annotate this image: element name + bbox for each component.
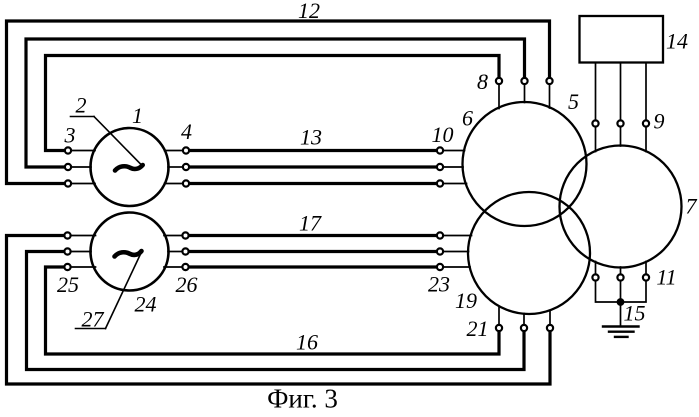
terminal 8 right <box>546 78 552 84</box>
wire bus 16 inner loop <box>46 267 500 354</box>
svg-text:21: 21 <box>467 316 489 341</box>
generator G24 circle <box>91 213 169 291</box>
terminal 25 bottom <box>64 264 70 270</box>
svg-text:17: 17 <box>299 211 322 236</box>
svg-text:7: 7 <box>686 194 698 219</box>
svg-text:27: 27 <box>82 307 105 332</box>
wire stubs terminals 8 into machine 5 <box>499 85 550 109</box>
terminal 8 middle <box>521 78 527 84</box>
terminal 4 middle <box>183 164 189 170</box>
svg-text:3: 3 <box>64 123 76 148</box>
wire bus 12 inner loop <box>46 56 500 151</box>
wire 17 phase B <box>190 250 437 253</box>
terminal 25 middle <box>64 248 70 254</box>
terminal 4 bottom <box>183 180 189 186</box>
svg-text:1: 1 <box>132 103 143 128</box>
wire ground stem <box>620 302 622 326</box>
terminal 21 left <box>496 325 502 331</box>
svg-text:26: 26 <box>176 272 198 297</box>
label 2 underline <box>71 116 95 118</box>
svg-text:4: 4 <box>181 119 192 144</box>
machine 5 circle <box>463 102 587 226</box>
label 27 leader line <box>106 253 142 329</box>
terminal 26 middle <box>182 248 188 254</box>
terminal 3 top <box>65 147 71 153</box>
terminal 23 bottom <box>437 264 443 270</box>
terminal 4 top <box>183 147 189 153</box>
wire stubs terminals 23 into machine 19 <box>444 236 472 268</box>
svg-text:15: 15 <box>624 301 646 326</box>
wire 13 phase C <box>190 182 436 185</box>
terminal 25 top <box>64 232 70 238</box>
terminal 21 right <box>547 325 553 331</box>
svg-text:19: 19 <box>455 288 477 313</box>
svg-text:23: 23 <box>428 272 450 297</box>
wire block 14 to terminals 9 <box>596 63 647 120</box>
wire bus 16 outer loop <box>7 236 551 385</box>
block 14 rectangle <box>580 16 664 63</box>
terminal 11 left <box>592 274 598 280</box>
wire terminals 11 to common node <box>596 282 647 303</box>
wire 17 phase A <box>190 234 437 237</box>
ground symbol 15 <box>603 327 639 337</box>
svg-text:10: 10 <box>432 122 454 147</box>
svg-text:6: 6 <box>462 106 473 131</box>
terminal 23 top <box>437 232 443 238</box>
machine 19 circle <box>468 192 590 314</box>
terminal 23 middle <box>437 248 443 254</box>
svg-text:11: 11 <box>656 265 676 290</box>
terminal 9 middle <box>617 120 623 126</box>
wire stubs terminals 21 under machine 19 <box>499 307 550 325</box>
generator G1 circle <box>91 128 169 206</box>
svg-text:25: 25 <box>57 272 79 297</box>
svg-text:5: 5 <box>568 89 579 114</box>
wire generator 24 right stubs <box>164 236 182 268</box>
terminal 10 bottom <box>437 180 443 186</box>
svg-text:8: 8 <box>477 69 488 94</box>
label 27 underline <box>76 328 106 330</box>
wire stubs terminals 10 into machine 5 <box>444 151 467 184</box>
terminal 9 left <box>592 120 598 126</box>
svg-text:24: 24 <box>135 292 157 317</box>
wire stubs terminals 9 into machine 7 <box>596 128 647 152</box>
svg-text:2: 2 <box>76 93 87 118</box>
terminal 3 middle <box>65 164 71 170</box>
terminal 10 middle <box>437 164 443 170</box>
svg-text:Фиг. 3: Фиг. 3 <box>267 384 338 413</box>
wire 13 phase B <box>190 165 436 168</box>
wire bus 12 middle loop <box>26 39 525 167</box>
svg-text:12: 12 <box>298 0 320 23</box>
node junction 15 <box>617 298 625 306</box>
terminal 11 right <box>643 274 649 280</box>
terminal 10 top <box>437 147 443 153</box>
terminal 9 right <box>643 120 649 126</box>
wire 17 phase C <box>190 265 437 268</box>
wire generator 1 right stubs <box>165 151 183 184</box>
terminal 26 top <box>182 232 188 238</box>
svg-text:14: 14 <box>666 29 688 54</box>
terminal 21 middle <box>521 325 527 331</box>
terminal 3 bottom <box>65 180 71 186</box>
terminal 26 bottom <box>182 264 188 270</box>
svg-text:9: 9 <box>654 109 665 134</box>
machine 7 circle <box>560 146 682 268</box>
wire bus 12 outer loop <box>7 21 550 184</box>
generator G1 sine symbol <box>115 165 143 171</box>
terminal 11 middle <box>617 274 623 280</box>
generator G24 sine symbol <box>115 251 142 257</box>
terminal 8 left <box>496 78 502 84</box>
label 2 leader line <box>94 117 142 166</box>
wire generator 1 left stubs <box>72 151 95 184</box>
wire bus 16 middle loop <box>27 252 525 370</box>
wire stubs machine 7 to terminals 11 <box>596 262 647 274</box>
wire 13 phase A <box>190 149 436 152</box>
wire generator 24 left stubs <box>72 236 96 268</box>
svg-text:16: 16 <box>296 330 318 355</box>
svg-text:13: 13 <box>300 125 322 150</box>
